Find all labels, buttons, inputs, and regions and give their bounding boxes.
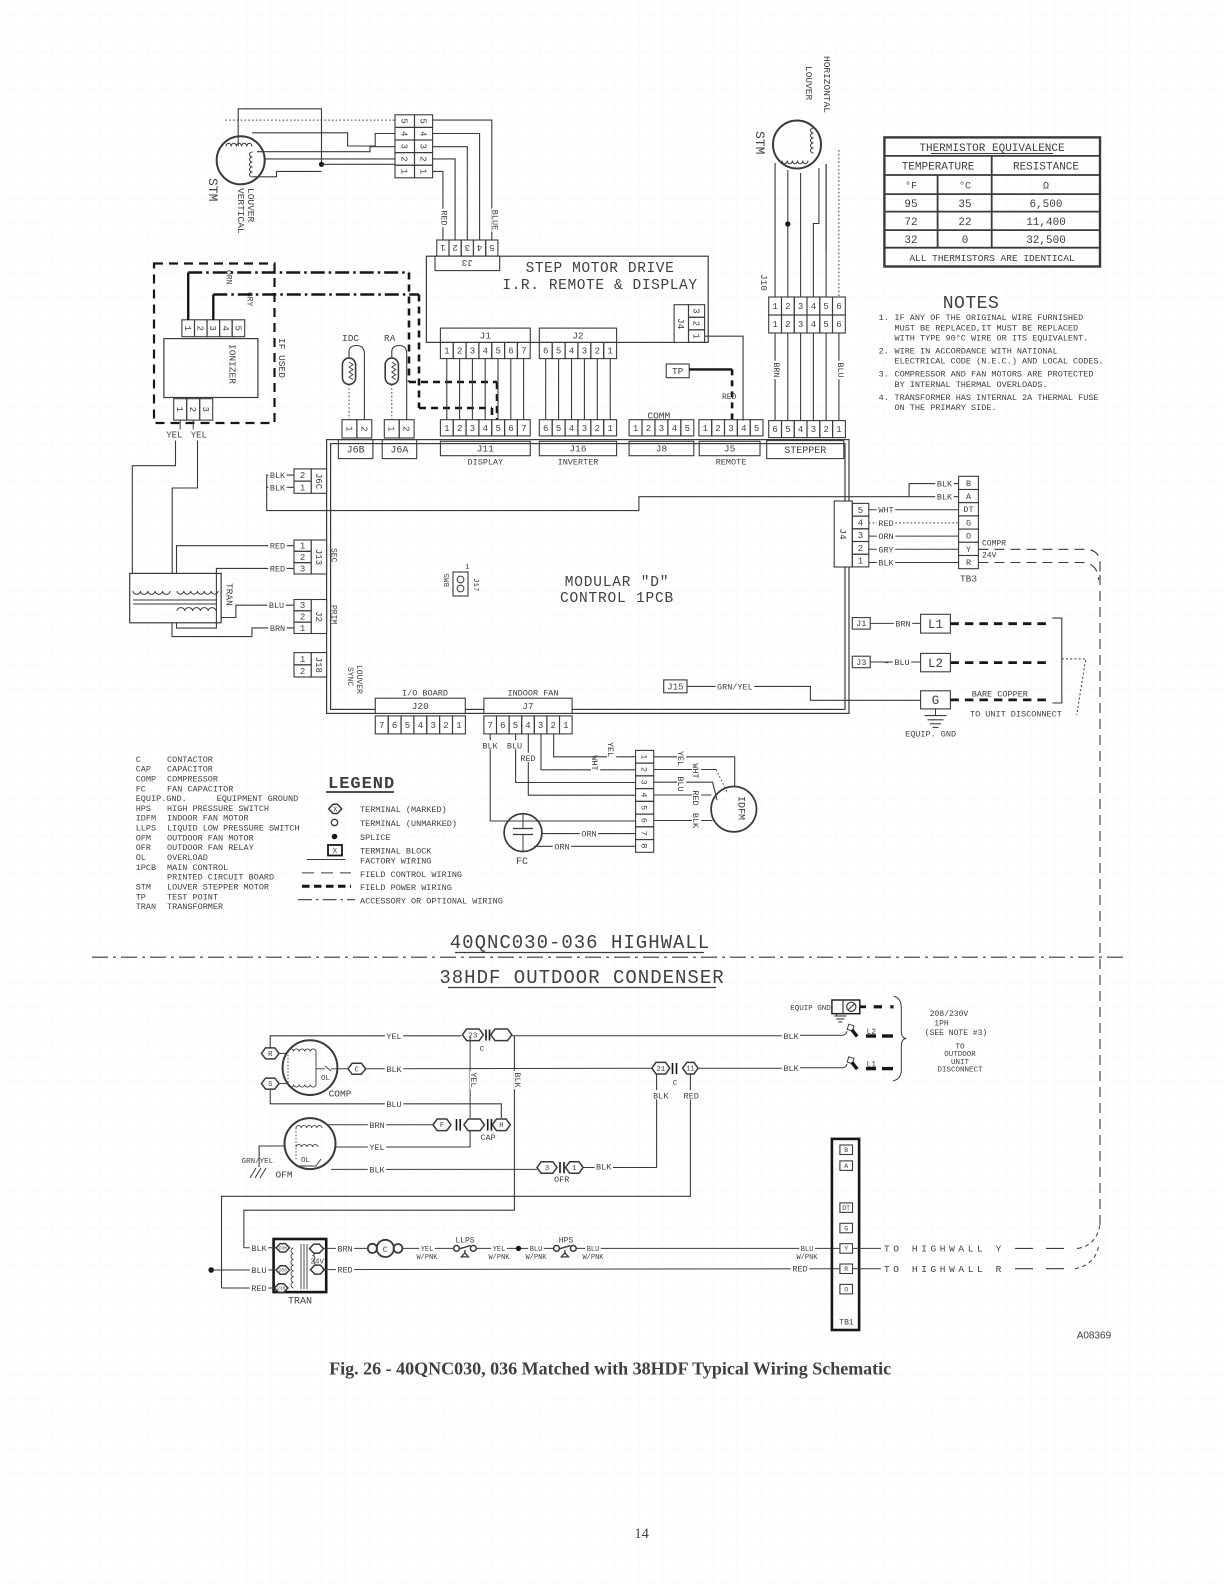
svg-text:BLU: BLU <box>386 1100 401 1110</box>
svg-text:38HDF OUTDOOR CONDENSER: 38HDF OUTDOOR CONDENSER <box>439 967 724 989</box>
svg-text:4: 4 <box>477 242 482 252</box>
svg-text:1: 1 <box>300 483 305 493</box>
svg-text:J7: J7 <box>522 701 533 712</box>
svg-text:4: 4 <box>569 347 574 357</box>
svg-text:3: 3 <box>300 564 305 574</box>
svg-text:1: 1 <box>465 564 470 572</box>
svg-text:2: 2 <box>858 544 863 554</box>
svg-text:7: 7 <box>487 721 492 731</box>
svg-text:OFM: OFM <box>136 833 151 843</box>
svg-text:J6C: J6C <box>313 473 323 490</box>
svg-text:PRINTED CIRCUIT BOARD: PRINTED CIRCUIT BOARD <box>167 873 274 883</box>
svg-text:1: 1 <box>174 407 184 412</box>
svg-text:ALL THERMISTORS ARE IDENTICAL: ALL THERMISTORS ARE IDENTICAL <box>909 253 1075 264</box>
svg-text:DISCONNECT: DISCONNECT <box>937 1067 983 1075</box>
svg-text:1: 1 <box>607 347 612 357</box>
svg-text:1.: 1. <box>879 313 889 323</box>
svg-text:J10: J10 <box>758 274 769 291</box>
svg-text:HIGH PRESSURE SWITCH: HIGH PRESSURE SWITCH <box>167 804 269 814</box>
svg-text:TRAN: TRAN <box>288 1297 312 1308</box>
svg-text:Ω: Ω <box>1043 182 1049 193</box>
svg-text:HORIZONTAL: HORIZONTAL <box>821 56 832 113</box>
svg-text:J13: J13 <box>313 549 323 565</box>
svg-text:5: 5 <box>495 347 500 357</box>
svg-text:2: 2 <box>195 325 205 330</box>
svg-text:3: 3 <box>728 424 733 434</box>
svg-text:J5: J5 <box>724 444 736 455</box>
svg-text:BMS: BMS <box>444 573 452 587</box>
svg-text:J3: J3 <box>461 257 473 268</box>
svg-text:OL: OL <box>136 853 146 863</box>
svg-text:YEL: YEL <box>386 1032 401 1042</box>
svg-text:1: 1 <box>444 424 449 434</box>
svg-text:1: 1 <box>399 169 409 174</box>
svg-text:TO UNIT DISCONNECT: TO UNIT DISCONNECT <box>970 710 1062 720</box>
svg-text:STEPPER: STEPPER <box>784 446 826 457</box>
svg-text:BLK: BLK <box>596 1162 612 1172</box>
svg-text:3: 3 <box>545 1165 550 1173</box>
svg-text:COMPRESSOR: COMPRESSOR <box>167 774 218 784</box>
svg-text:W/PNK: W/PNK <box>582 1254 604 1262</box>
svg-text:RESISTANCE: RESISTANCE <box>1013 162 1079 174</box>
svg-text:OFM: OFM <box>275 1170 292 1181</box>
svg-text:2: 2 <box>300 667 305 677</box>
svg-text:2: 2 <box>452 242 457 252</box>
svg-text:ELECTRICAL CODE (N.E.C.) AND L: ELECTRICAL CODE (N.E.C.) AND LOCAL CODES… <box>895 357 1104 367</box>
svg-text:HPS: HPS <box>136 804 151 814</box>
svg-text:ORN: ORN <box>581 830 596 840</box>
svg-text:TO HIGHWALL Y: TO HIGHWALL Y <box>884 1244 1005 1255</box>
svg-text:6: 6 <box>500 721 505 731</box>
svg-text:11,400: 11,400 <box>1026 217 1066 229</box>
svg-text:2: 2 <box>401 426 411 431</box>
svg-text:5: 5 <box>858 506 863 516</box>
svg-text:RED: RED <box>690 790 700 805</box>
svg-text:1: 1 <box>703 424 708 434</box>
svg-text:4: 4 <box>858 519 863 529</box>
svg-text:TEMPERATURE: TEMPERATURE <box>902 162 975 174</box>
svg-text:2: 2 <box>595 424 600 434</box>
svg-text:F: F <box>440 1122 444 1130</box>
svg-text:FC: FC <box>136 784 146 794</box>
svg-text:1: 1 <box>444 347 449 357</box>
svg-text:22: 22 <box>958 217 971 229</box>
svg-text:J18: J18 <box>313 657 323 673</box>
svg-text:BLK: BLK <box>937 493 953 503</box>
svg-text:3: 3 <box>470 347 475 357</box>
svg-text:5: 5 <box>405 721 410 731</box>
svg-text:TERMINAL (UNMARKED): TERMINAL (UNMARKED) <box>360 819 457 829</box>
svg-text:DT: DT <box>842 1205 850 1212</box>
svg-text:R: R <box>268 1051 273 1059</box>
svg-text:Y: Y <box>844 1246 848 1253</box>
svg-text:2: 2 <box>187 407 197 412</box>
svg-text:A: A <box>966 492 972 502</box>
svg-text:2: 2 <box>300 553 305 563</box>
svg-text:–: – <box>884 658 889 668</box>
svg-text:B: B <box>844 1147 848 1154</box>
svg-text:3: 3 <box>300 601 305 611</box>
svg-text:2: 2 <box>443 721 448 731</box>
svg-text:1PH: 1PH <box>934 1019 949 1028</box>
svg-text:1: 1 <box>639 754 649 759</box>
svg-text:2: 2 <box>639 767 649 772</box>
svg-text:W/PNK: W/PNK <box>796 1254 818 1262</box>
svg-text:J15: J15 <box>667 682 683 692</box>
svg-text:OL: OL <box>321 1075 331 1083</box>
svg-text:7: 7 <box>521 424 526 434</box>
svg-text:O: O <box>844 1286 848 1293</box>
svg-text:TRANSFORMER: TRANSFORMER <box>167 902 223 912</box>
svg-text:BLK: BLK <box>270 483 286 493</box>
svg-text:BLK: BLK <box>251 1244 267 1254</box>
svg-text:OFR: OFR <box>136 843 151 853</box>
svg-text:208: 208 <box>279 1268 287 1274</box>
svg-text:RED: RED <box>270 564 285 574</box>
svg-text:BRN: BRN <box>895 619 910 629</box>
svg-text:6: 6 <box>772 425 777 435</box>
svg-text:7: 7 <box>521 347 526 357</box>
svg-text:5: 5 <box>399 118 409 123</box>
svg-text:5: 5 <box>556 424 561 434</box>
svg-text:BLUE: BLUE <box>490 210 500 230</box>
svg-text:INDOOR FAN MOTOR: INDOOR FAN MOTOR <box>167 814 249 824</box>
svg-text:5: 5 <box>556 347 561 357</box>
svg-text:EQUIPMENT GROUND: EQUIPMENT GROUND <box>217 794 299 804</box>
svg-text:YEL: YEL <box>369 1143 384 1153</box>
svg-text:STM: STM <box>136 883 151 893</box>
svg-text:Y: Y <box>966 545 971 555</box>
svg-text:1: 1 <box>772 302 777 312</box>
svg-text:OUTDOOR FAN MOTOR: OUTDOOR FAN MOTOR <box>167 833 254 843</box>
svg-text:1: 1 <box>563 721 568 731</box>
svg-text:BLK: BLK <box>783 1032 799 1042</box>
svg-text:SEC: SEC <box>329 548 338 563</box>
svg-text:VERTICAL: VERTICAL <box>235 188 246 234</box>
svg-text:2: 2 <box>715 424 720 434</box>
svg-text:YEL: YEL <box>166 431 182 441</box>
svg-text:4: 4 <box>569 424 574 434</box>
svg-text:A08369: A08369 <box>1077 1331 1112 1342</box>
svg-text:J6A: J6A <box>390 446 408 457</box>
svg-text:CAP: CAP <box>480 1133 495 1143</box>
svg-text:3: 3 <box>418 144 428 149</box>
svg-text:LOUVER: LOUVER <box>803 66 814 101</box>
svg-text:C: C <box>383 1245 388 1255</box>
svg-text:24V: 24V <box>982 552 997 561</box>
svg-text:4.: 4. <box>879 393 889 403</box>
svg-text:OUTDOOR FAN RELAY: OUTDOOR FAN RELAY <box>167 843 254 853</box>
svg-text:2: 2 <box>646 424 651 434</box>
svg-text:0: 0 <box>962 235 969 247</box>
svg-text:°F: °F <box>905 181 917 193</box>
svg-text:YEL: YEL <box>605 742 615 757</box>
svg-text:1: 1 <box>836 425 841 435</box>
svg-text:MUST BE REPLACED,IT MUST BE RE: MUST BE REPLACED,IT MUST BE REPLACED <box>895 323 1079 333</box>
svg-text:ORN: ORN <box>878 532 893 542</box>
svg-text:BLK: BLK <box>878 559 894 569</box>
svg-text:J3: J3 <box>856 658 866 668</box>
svg-text:1PCB: 1PCB <box>136 863 156 873</box>
svg-text:1: 1 <box>300 542 305 552</box>
svg-text:2: 2 <box>785 320 790 330</box>
svg-text:4: 4 <box>525 721 530 731</box>
svg-text:2: 2 <box>785 302 790 312</box>
svg-text:CONTACTOR: CONTACTOR <box>167 755 213 765</box>
svg-text:2.: 2. <box>879 347 889 357</box>
svg-text:BRN: BRN <box>369 1121 384 1131</box>
svg-text:NOTES: NOTES <box>943 294 1000 314</box>
svg-text:3: 3 <box>639 780 649 785</box>
svg-text:3: 3 <box>811 425 816 435</box>
svg-text:IDFM: IDFM <box>735 796 746 820</box>
svg-text:32: 32 <box>904 235 917 247</box>
svg-text:1: 1 <box>300 624 305 634</box>
svg-text:230: 230 <box>277 1286 285 1292</box>
svg-text:6: 6 <box>508 347 513 357</box>
svg-text:TO HIGHWALL R: TO HIGHWALL R <box>884 1264 1005 1275</box>
svg-text:L1: L1 <box>928 618 943 632</box>
svg-text:WHT: WHT <box>589 755 599 770</box>
svg-text:2: 2 <box>418 156 428 161</box>
svg-text:C: C <box>136 755 141 765</box>
svg-text:RED: RED <box>878 519 893 529</box>
svg-text:14: 14 <box>634 1526 649 1542</box>
svg-text:ON THE PRIMARY SIDE.: ON THE PRIMARY SIDE. <box>895 403 997 413</box>
svg-text:PRIM: PRIM <box>329 605 338 624</box>
svg-text:(SEE NOTE #3): (SEE NOTE #3) <box>925 1029 987 1038</box>
svg-text:4: 4 <box>639 792 649 797</box>
svg-text:G: G <box>932 694 940 708</box>
svg-text:4: 4 <box>741 424 746 434</box>
svg-text:4: 4 <box>672 424 677 434</box>
svg-text:TRANSFORMER HAS INTERNAL 2A TH: TRANSFORMER HAS INTERNAL 2A THERMAL FUSE <box>895 393 1099 403</box>
svg-text:BRN: BRN <box>270 624 285 634</box>
svg-text:COMPRESSOR AND FAN MOTORS ARE: COMPRESSOR AND FAN MOTORS ARE PROTECTED <box>895 370 1094 380</box>
svg-text:1: 1 <box>858 557 863 567</box>
svg-text:2: 2 <box>399 156 409 161</box>
svg-text:G: G <box>844 1225 848 1232</box>
svg-text:BLK: BLK <box>937 480 953 490</box>
svg-text:COM: COM <box>279 1245 287 1251</box>
svg-text:1: 1 <box>440 242 445 252</box>
svg-text:BLU: BLU <box>835 362 845 377</box>
svg-text:FIELD CONTROL WIRING: FIELD CONTROL WIRING <box>360 870 462 880</box>
svg-text:4: 4 <box>418 721 423 731</box>
svg-text:RED: RED <box>337 1266 352 1276</box>
svg-text:7: 7 <box>379 721 384 731</box>
svg-text:6: 6 <box>508 424 513 434</box>
svg-text:C: C <box>673 1080 678 1088</box>
svg-text:TERMINAL (MARKED): TERMINAL (MARKED) <box>360 805 447 815</box>
svg-text:4: 4 <box>220 325 230 330</box>
svg-text:BLK: BLK <box>386 1065 402 1075</box>
svg-text:1: 1 <box>572 1165 577 1173</box>
svg-text:MODULAR "D": MODULAR "D" <box>565 575 670 591</box>
svg-text:4: 4 <box>399 131 409 136</box>
svg-text:DT: DT <box>963 505 973 515</box>
svg-text:2: 2 <box>300 613 305 623</box>
svg-text:6: 6 <box>392 721 397 731</box>
svg-text:Fig. 26 - 40QNC030, 036 Matche: Fig. 26 - 40QNC030, 036 Matched with 38H… <box>329 1359 891 1379</box>
svg-text:W/PNK: W/PNK <box>525 1254 547 1262</box>
svg-text:2: 2 <box>823 425 828 435</box>
svg-text:BLU: BLU <box>894 658 909 668</box>
svg-text:STEP MOTOR DRIVE: STEP MOTOR DRIVE <box>526 261 675 277</box>
svg-text:5: 5 <box>685 424 690 434</box>
svg-text:3: 3 <box>582 424 587 434</box>
svg-text:I/O BOARD: I/O BOARD <box>402 689 448 699</box>
svg-text:TERMINAL BLOCK: TERMINAL BLOCK <box>360 846 432 856</box>
svg-text:3: 3 <box>470 424 475 434</box>
svg-text:21: 21 <box>656 1066 666 1074</box>
svg-text:1: 1 <box>343 426 353 431</box>
svg-text:8: 8 <box>639 843 649 848</box>
svg-text:TB3: TB3 <box>960 574 977 585</box>
svg-text:RED: RED <box>270 542 285 552</box>
svg-text:2: 2 <box>358 426 368 431</box>
svg-text:3: 3 <box>430 721 435 731</box>
svg-text:4: 4 <box>811 320 816 330</box>
svg-text:ACCESSORY OR OPTIONAL WIRING: ACCESSORY OR OPTIONAL WIRING <box>360 897 503 907</box>
svg-text:YEL: YEL <box>675 751 685 766</box>
svg-text:1: 1 <box>386 426 396 431</box>
svg-text:IDC: IDC <box>342 333 359 344</box>
svg-text:EQUIP. GND: EQUIP. GND <box>905 730 956 740</box>
svg-text:32,500: 32,500 <box>1026 235 1066 247</box>
svg-text:4: 4 <box>811 302 816 312</box>
svg-text:6: 6 <box>543 347 548 357</box>
svg-text:GRN/YEL: GRN/YEL <box>717 682 753 692</box>
svg-text:YEL: YEL <box>191 431 207 441</box>
svg-text:4: 4 <box>798 425 803 435</box>
svg-text:2: 2 <box>300 471 305 481</box>
svg-text:1: 1 <box>456 721 461 731</box>
svg-text:11: 11 <box>686 1066 694 1074</box>
svg-text:OL: OL <box>301 1157 311 1165</box>
svg-text:C: C <box>480 1046 485 1054</box>
svg-text:72: 72 <box>904 217 917 229</box>
svg-text:2: 2 <box>690 321 700 326</box>
svg-text:LOUVER: LOUVER <box>245 188 256 223</box>
svg-text:SYNC: SYNC <box>345 667 354 686</box>
svg-text:J17: J17 <box>471 578 479 592</box>
svg-text:RED: RED <box>439 210 449 225</box>
svg-text:I.R. REMOTE & DISPLAY: I.R. REMOTE & DISPLAY <box>502 278 697 294</box>
svg-text:2: 2 <box>595 347 600 357</box>
svg-text:B: B <box>966 479 971 489</box>
svg-text:BLK: BLK <box>690 813 700 829</box>
svg-text:1: 1 <box>182 325 192 330</box>
svg-text:IDFM: IDFM <box>136 814 156 824</box>
svg-text:J4: J4 <box>675 318 686 330</box>
svg-text:SPLICE: SPLICE <box>360 833 391 843</box>
svg-text:3: 3 <box>858 531 863 541</box>
svg-text:J20: J20 <box>412 701 429 712</box>
svg-text:3: 3 <box>200 407 210 412</box>
svg-text:5: 5 <box>489 242 494 252</box>
svg-text:3: 3 <box>399 144 409 149</box>
svg-text:5: 5 <box>823 302 828 312</box>
svg-text:5: 5 <box>418 118 428 123</box>
svg-text:IF ANY OF THE ORIGINAL WIRE FU: IF ANY OF THE ORIGINAL WIRE FURNISHED <box>895 313 1084 323</box>
svg-text:INDOOR FAN: INDOOR FAN <box>507 689 558 699</box>
svg-text:BLK: BLK <box>482 741 498 751</box>
svg-text:5: 5 <box>495 424 500 434</box>
svg-text:2: 2 <box>550 721 555 731</box>
svg-text:J16: J16 <box>569 444 586 455</box>
svg-text:LOUVER STEPPER MOTOR: LOUVER STEPPER MOTOR <box>167 883 269 893</box>
svg-text:5: 5 <box>232 325 242 330</box>
svg-text:3: 3 <box>582 347 587 357</box>
svg-text:OFR: OFR <box>554 1175 569 1185</box>
svg-text:4: 4 <box>483 347 488 357</box>
svg-text:1: 1 <box>690 333 700 338</box>
svg-text:S: S <box>268 1081 273 1089</box>
svg-text:HPS: HPS <box>559 1237 574 1246</box>
svg-text:LEGEND: LEGEND <box>328 775 395 794</box>
svg-text:3: 3 <box>538 721 543 731</box>
svg-text:YEL: YEL <box>468 1072 478 1087</box>
svg-text:J11: J11 <box>477 444 494 455</box>
svg-text:BLK: BLK <box>512 1072 522 1088</box>
svg-text:FAN CAPACITOR: FAN CAPACITOR <box>167 784 233 794</box>
svg-text:RED: RED <box>684 1091 699 1101</box>
svg-text:6,500: 6,500 <box>1029 199 1062 211</box>
svg-text:FACTORY WIRING: FACTORY WIRING <box>360 856 431 866</box>
svg-text:J1: J1 <box>480 331 492 342</box>
svg-text:1: 1 <box>607 424 612 434</box>
svg-text:3: 3 <box>465 242 470 252</box>
svg-text:2: 2 <box>457 424 462 434</box>
svg-text:5: 5 <box>785 425 790 435</box>
svg-text:G: G <box>966 518 971 528</box>
svg-text:WHT: WHT <box>878 506 893 516</box>
svg-text:CONTROL 1PCB: CONTROL 1PCB <box>560 591 674 607</box>
svg-text:WHT: WHT <box>690 763 700 778</box>
svg-text:3: 3 <box>659 424 664 434</box>
svg-text:RED: RED <box>520 754 535 764</box>
svg-text:4: 4 <box>418 131 428 136</box>
svg-text:BY INTERNAL THERMAL OVERLOADS.: BY INTERNAL THERMAL OVERLOADS. <box>895 380 1048 390</box>
svg-text:W/PNK: W/PNK <box>416 1254 438 1262</box>
svg-text:TEST POINT: TEST POINT <box>167 892 218 902</box>
svg-text:TP: TP <box>672 366 684 377</box>
svg-text:INVERTER: INVERTER <box>558 458 599 468</box>
svg-text:LLPS: LLPS <box>455 1237 474 1246</box>
svg-text:ORN: ORN <box>554 842 569 852</box>
svg-text:FC: FC <box>516 857 528 868</box>
svg-text:O: O <box>966 532 971 542</box>
svg-text:BLK: BLK <box>653 1091 669 1101</box>
svg-text:STM: STM <box>205 178 220 201</box>
svg-text:REMOTE: REMOTE <box>716 458 747 468</box>
svg-text:EQUIP GND: EQUIP GND <box>790 1005 831 1013</box>
svg-text:J8: J8 <box>656 444 668 455</box>
svg-text:TRAN: TRAN <box>136 902 156 912</box>
svg-text:LIQUID LOW PRESSURE SWITCH: LIQUID LOW PRESSURE SWITCH <box>167 824 300 834</box>
svg-text:BARE COPPER: BARE COPPER <box>972 689 1028 699</box>
svg-text:BLK: BLK <box>270 471 286 481</box>
svg-text:24V: 24V <box>311 1258 325 1266</box>
svg-text:5: 5 <box>823 320 828 330</box>
svg-text:C: C <box>355 1066 360 1074</box>
svg-text:TP: TP <box>136 892 146 902</box>
svg-text:RED: RED <box>722 393 737 402</box>
svg-text:1: 1 <box>418 169 428 174</box>
svg-text:2: 2 <box>457 347 462 357</box>
svg-text:1: 1 <box>300 655 305 665</box>
